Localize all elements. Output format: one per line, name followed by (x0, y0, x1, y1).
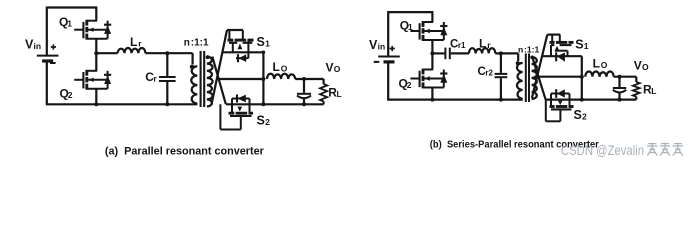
svg-text:r2: r2 (485, 68, 493, 77)
svg-text:S: S (574, 108, 582, 122)
svg-text:1: 1 (408, 22, 413, 32)
svg-text:S: S (257, 114, 265, 128)
svg-text:CSDN @Zevalin: CSDN @Zevalin (561, 143, 644, 158)
svg-text:2: 2 (407, 80, 412, 90)
svg-text:L: L (337, 89, 342, 99)
svg-text:2: 2 (582, 112, 587, 122)
svg-text:O: O (281, 64, 288, 74)
svg-text:n :1:1: n :1:1 (184, 37, 209, 48)
svg-text:L: L (479, 36, 486, 50)
svg-text:V: V (326, 61, 334, 75)
svg-text:O: O (601, 60, 608, 70)
svg-text:S: S (257, 35, 265, 49)
svg-text:r1: r1 (458, 41, 466, 50)
svg-text:1: 1 (67, 19, 72, 29)
svg-text:in: in (34, 41, 42, 51)
svg-text:2: 2 (265, 117, 270, 127)
svg-text:L: L (651, 86, 656, 96)
svg-text:1: 1 (265, 38, 270, 48)
svg-text:1: 1 (584, 41, 589, 51)
svg-text:n :1:1: n :1:1 (518, 44, 539, 54)
svg-text:S: S (575, 37, 583, 51)
svg-text:V: V (634, 58, 642, 72)
svg-text:2: 2 (68, 90, 73, 100)
svg-text:L: L (273, 60, 280, 74)
svg-text:O: O (334, 64, 341, 74)
svg-text:(a) Parallel resonant convert: (a) Parallel resonant converter (105, 145, 265, 157)
svg-text:L: L (593, 57, 600, 71)
svg-text:L: L (130, 35, 137, 49)
svg-text:in: in (378, 42, 386, 52)
svg-text:O: O (642, 62, 649, 72)
